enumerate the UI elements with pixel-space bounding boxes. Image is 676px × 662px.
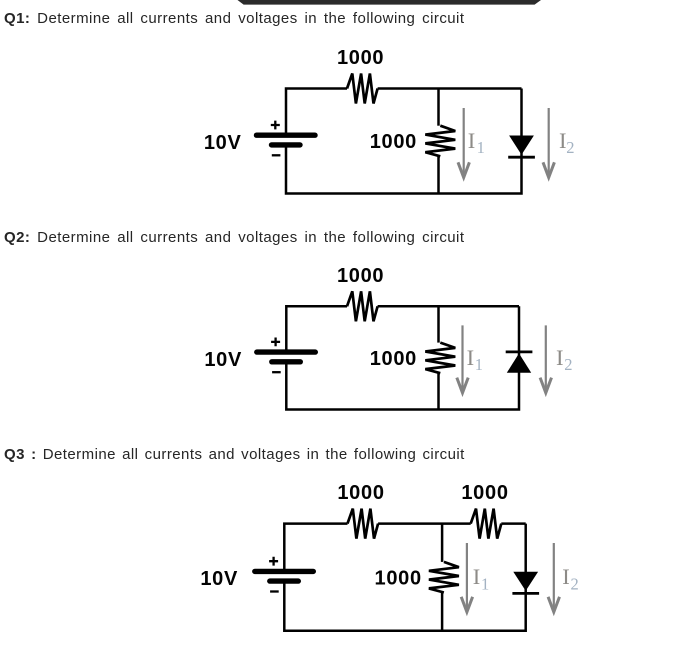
svg-text:1: 1 (481, 574, 489, 593)
wire: C1 left branch bottom + bottom wire + right branch (286, 89, 522, 194)
diode D2 (pointing up) cathode bar (506, 350, 533, 353)
current arrow I2 of C1 (543, 108, 554, 178)
wire: C3 top wire between R1 and R2 (378, 522, 471, 525)
svg-text:I: I (468, 128, 476, 153)
wire: C1 middle branch upper segment (437, 89, 440, 126)
svg-text:10V: 10V (200, 568, 238, 590)
svg-text:2: 2 (571, 574, 579, 593)
current arrow I1 of C1 (458, 108, 469, 178)
svg-text:1000: 1000 (337, 265, 384, 287)
svg-text:I: I (556, 345, 564, 370)
wire: C3 middle branch lower segment (441, 593, 444, 631)
resistor R2a 1000 ohm (series, top) (347, 291, 378, 321)
svg-text:I: I (467, 345, 475, 370)
svg-text:I: I (562, 564, 570, 589)
battery V2 minus sign (272, 371, 281, 373)
current arrow I2 of C3 (548, 543, 559, 612)
heading Q3 (4, 446, 465, 463)
diode D1 (pointing down) triangle (509, 136, 534, 155)
svg-text:I: I (473, 564, 481, 589)
battery V3 plus sign (269, 557, 278, 566)
wire: C2 middle branch upper segment (437, 306, 440, 342)
svg-text:1: 1 (475, 355, 483, 374)
svg-text:1000: 1000 (461, 482, 508, 504)
battery V1 plus sign (271, 121, 280, 130)
resistor R2b 1000 ohm (shunt, middle branch) (425, 343, 455, 374)
battery V1 short plate (272, 142, 301, 147)
wire: C1 middle branch lower segment (437, 156, 440, 193)
resistor R1a 1000 ohm (series, top) (347, 74, 378, 104)
battery V2 short plate (272, 359, 301, 364)
current arrow I1 of C2 (457, 325, 468, 392)
svg-text:1000: 1000 (337, 47, 384, 69)
diode D2 triangle (507, 353, 531, 372)
battery V2 (10V source) long plate (257, 349, 316, 354)
dark tab bar fragment at top edge (238, 0, 542, 5)
svg-text:10V: 10V (204, 132, 242, 154)
battery V2 plus sign (271, 338, 280, 347)
battery V3 (10V source) long plate (255, 569, 313, 574)
svg-text:1000: 1000 (337, 482, 384, 504)
resistor R3a 1000 ohm (series, top) (348, 509, 379, 539)
heading Q1 (4, 10, 464, 27)
svg-text:2: 2 (564, 355, 572, 374)
resistor R3c 1000 ohm (series, top right) (471, 509, 502, 539)
svg-text:10V: 10V (204, 349, 242, 371)
svg-text:2: 2 (566, 138, 574, 157)
wire: C2 middle branch lower segment (437, 373, 440, 409)
heading Q2 (4, 229, 464, 246)
wire: C2 left branch top segment + top-left corner (286, 306, 347, 352)
battery V3 short plate (270, 578, 299, 583)
diode D3 cathode bar (512, 592, 539, 595)
resistor R3b 1000 ohm (shunt, middle branch) (429, 562, 459, 593)
battery V1 (10V source) long plate (257, 132, 316, 137)
battery V1 minus sign (272, 154, 281, 156)
wire: C2 top wire right of R1 (378, 305, 519, 308)
svg-text:1: 1 (477, 138, 485, 157)
wire: C1 left branch top segment + top-left corner (286, 89, 347, 136)
battery V3 minus sign (270, 590, 279, 592)
wire: C3 middle branch upper segment (441, 524, 444, 562)
resistor R1b 1000 ohm (shunt, middle branch) (425, 126, 455, 157)
diode D3 (pointing down) triangle (513, 572, 538, 591)
diode D1 cathode bar (508, 156, 535, 159)
svg-text:1000: 1000 (375, 567, 422, 589)
svg-text:1000: 1000 (370, 348, 417, 370)
current arrow I2 of C2 (540, 325, 551, 392)
wire: C1 top wire right of R1 (378, 87, 522, 90)
wire: C3 top wire right of R2 (501, 522, 525, 525)
wire: C3 left branch top segment + top-left corner (284, 524, 347, 572)
wire: C3 left branch bottom + bottom wire + right branch (284, 524, 525, 631)
wire: C2 left branch bottom + bottom wire + right branch (286, 306, 519, 409)
current arrow I1 of C3 (461, 543, 472, 612)
svg-text:1000: 1000 (370, 131, 417, 153)
